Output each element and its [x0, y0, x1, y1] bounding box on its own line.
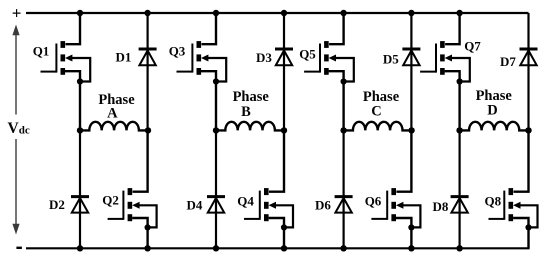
svg-text:D6: D6	[315, 198, 331, 213]
svg-text:D: D	[487, 103, 497, 119]
svg-text:D3: D3	[256, 50, 272, 65]
svg-text:Phase: Phase	[233, 89, 270, 105]
svg-text:Q6: Q6	[365, 194, 382, 209]
svg-text:Q7: Q7	[464, 38, 481, 53]
svg-text:D8: D8	[432, 199, 448, 214]
svg-text:C: C	[371, 103, 381, 119]
svg-text:Q3: Q3	[169, 44, 186, 59]
svg-text:Q8: Q8	[484, 193, 501, 208]
svg-text:D7: D7	[500, 54, 516, 69]
svg-text:Q4: Q4	[237, 194, 254, 209]
svg-text:D1: D1	[115, 50, 131, 65]
svg-text:Q2: Q2	[102, 193, 119, 208]
svg-text:Q1: Q1	[33, 43, 50, 58]
svg-text:B: B	[241, 104, 251, 120]
svg-text:+: +	[12, 4, 22, 23]
svg-text:D2: D2	[49, 197, 65, 212]
svg-text:Vdc: Vdc	[8, 120, 30, 137]
svg-text:A: A	[107, 106, 118, 122]
svg-text:D5: D5	[383, 52, 399, 67]
svg-text:Q5: Q5	[299, 46, 316, 61]
svg-text:D4: D4	[187, 198, 203, 213]
